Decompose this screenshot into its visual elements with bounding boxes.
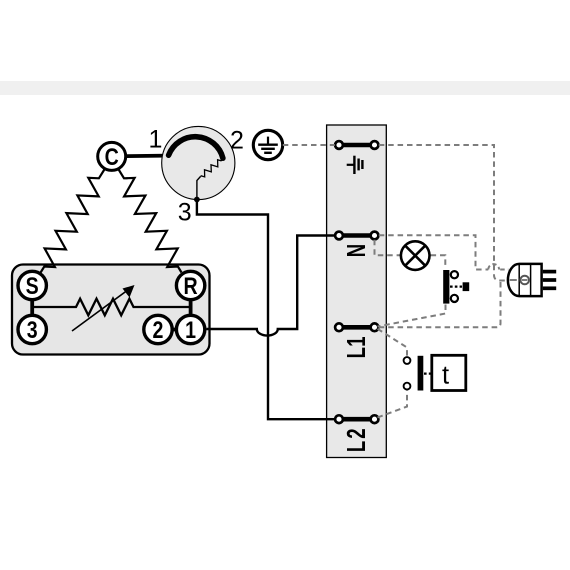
- wire motor pin1 to terminal N (with crossover hump): [207, 236, 336, 336]
- svg-text:1: 1: [185, 316, 196, 344]
- svg-text:R: R: [184, 272, 198, 300]
- terminal L2 bar: [339, 417, 375, 422]
- motor terminal 2: [144, 315, 172, 343]
- motor terminal 1: [176, 315, 204, 343]
- thermostat lever: [418, 356, 424, 391]
- svg-text:2: 2: [153, 316, 164, 344]
- svg-text:N: N: [342, 244, 371, 257]
- protective earth symbol: [253, 130, 282, 159]
- thermostat box t: [432, 355, 466, 390]
- door switch: [443, 270, 469, 304]
- relay internal wire to pin 3: [197, 177, 201, 200]
- dashed wire thermostat contact to L2: [378, 391, 408, 418]
- dashed cord earth-symbol to earth terminal: [283, 144, 335, 146]
- overload protector resistor (PTC with arrow): [71, 299, 140, 316]
- winding resistor C-R (start winding): [118, 169, 182, 273]
- link 2-1: [168, 328, 180, 332]
- dashed cord N terminal to plug (with hop): [379, 235, 489, 269]
- svg-text:L1: L1: [342, 336, 371, 358]
- svg-text:3: 3: [178, 199, 192, 227]
- relay PTC resistor: [201, 160, 222, 177]
- svg-text:2: 2: [230, 126, 244, 154]
- svg-text:S: S: [26, 272, 39, 300]
- motor terminal C: [98, 142, 126, 170]
- motor terminal R: [176, 271, 204, 299]
- thermostat link: [424, 372, 432, 374]
- junction dot at relay pin 1: [164, 153, 170, 159]
- link R-1: [189, 298, 193, 317]
- mains plug: [508, 264, 556, 296]
- svg-text:1: 1: [148, 125, 162, 153]
- link S-3: [30, 298, 34, 317]
- winding resistor C-S (main winding): [41, 169, 105, 273]
- wire C to relay pin 1 (thick): [124, 154, 167, 158]
- wire relay pin3 to terminal L2: [197, 200, 335, 420]
- terminal label L2: [342, 426, 371, 452]
- relay pin 3 junction dot: [194, 197, 200, 203]
- protector arrow: [72, 290, 129, 332]
- svg-text:3: 3: [27, 316, 38, 344]
- motor terminal S: [18, 271, 46, 299]
- dashed cord L1 to plug: [379, 282, 501, 328]
- dashed wire door switch to L1: [378, 305, 446, 327]
- header band: [0, 81, 570, 95]
- svg-text:t: t: [442, 362, 449, 390]
- dashed wire L1 to thermostat contact: [378, 329, 408, 356]
- terminal label N: [342, 244, 371, 257]
- dashed wire lamp to door switch: [431, 255, 446, 268]
- start relay (PTC starter) body: [162, 126, 235, 199]
- compressor housing box: [12, 265, 210, 355]
- dashed wire N terminal down to lamp: [375, 240, 401, 256]
- terminal label L1: [342, 336, 371, 358]
- interior lamp: [401, 241, 430, 270]
- terminal strip: [327, 125, 387, 458]
- terminal N bar: [339, 233, 375, 238]
- thermostat contact upper: [404, 357, 411, 364]
- terminal L1 bar: [339, 325, 375, 330]
- svg-text:L2: L2: [342, 426, 371, 452]
- dashed cord earth terminal to plug (earth conductor): [379, 145, 519, 281]
- terminal strip earth symbol: [347, 156, 363, 174]
- motor terminal 3: [18, 315, 46, 343]
- overload protector wire: [32, 306, 71, 308]
- terminal earth bar: [339, 143, 375, 148]
- svg-text:C: C: [105, 143, 119, 171]
- thermostat contact lower: [404, 383, 411, 390]
- relay bimetal contact arc: [169, 137, 223, 158]
